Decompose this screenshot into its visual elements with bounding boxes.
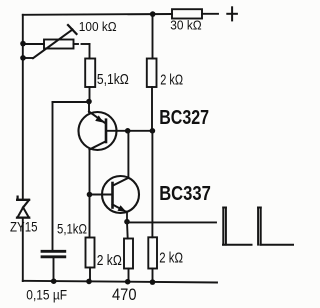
node dot base lead to Q2 collector xyxy=(125,128,131,134)
potentiometer P1 wiper arrow xyxy=(23,25,77,58)
wire divider column down xyxy=(151,131,153,238)
resistor R4 470 (emitter) xyxy=(124,222,133,282)
resistor R5 2k (bottom right) xyxy=(148,237,157,282)
svg-text:5,1kΩ: 5,1kΩ xyxy=(97,72,129,88)
wire capacitor to bottom rail xyxy=(53,258,55,281)
node dot top rail tap xyxy=(150,11,156,17)
node dot R5 ground xyxy=(150,279,156,285)
svg-text:2 kΩ: 2 kΩ xyxy=(159,249,183,266)
plus supply terminal xyxy=(227,7,237,20)
waveform output pulses xyxy=(223,208,293,245)
resistor R1 5.1k (top) xyxy=(85,59,95,102)
resistor 30k xyxy=(172,9,202,18)
transistor Q2 base lead xyxy=(90,194,112,196)
node dot capacitor-ground xyxy=(51,278,57,284)
resistor R3 2k (bottom left) xyxy=(86,195,95,282)
node dot base lead to divider xyxy=(150,128,156,134)
transistor Q1 emitter lead with arrow xyxy=(89,102,105,124)
transistor Q1 collector lead xyxy=(90,142,106,195)
node dot R4 ground xyxy=(125,279,131,285)
svg-text:470: 470 xyxy=(112,286,137,304)
transistor Q2 BC337 body xyxy=(102,176,139,213)
transistor Q1 base lead xyxy=(107,130,153,132)
svg-text:2 kΩ: 2 kΩ xyxy=(97,253,122,269)
svg-text:0,15 µF: 0,15 µF xyxy=(26,287,67,302)
transistor Q1 BC327 body xyxy=(79,112,117,150)
node dot emitter node xyxy=(86,99,92,105)
svg-text:BC337: BC337 xyxy=(159,182,211,205)
capacitor C1 0.15uF xyxy=(42,251,65,256)
svg-text:100 kΩ: 100 kΩ xyxy=(79,19,117,34)
node dot R3 ground xyxy=(86,279,92,285)
resistor R2 2k (top) xyxy=(147,14,157,131)
transistor Q2 collector lead xyxy=(113,178,128,186)
transistor Q2 emitter lead with arrow xyxy=(113,205,128,223)
node dot rail-wiper xyxy=(20,55,26,61)
zener diode D1 ZY15 xyxy=(17,197,29,218)
svg-text:ZY15: ZY15 xyxy=(10,218,38,234)
wire top supply rail xyxy=(23,14,218,15)
wire Q2 collector up to Q1 base xyxy=(127,131,129,178)
node dot Q2 base xyxy=(87,192,93,198)
wire emitter node to capacitor branch xyxy=(53,102,90,250)
svg-text:5,1kΩ: 5,1kΩ xyxy=(57,221,87,237)
potentiometer P1 100k body xyxy=(23,40,90,59)
svg-text:30 kΩ: 30 kΩ xyxy=(170,18,202,33)
svg-text:2 kΩ: 2 kΩ xyxy=(160,72,183,89)
svg-text:BC327: BC327 xyxy=(159,106,209,129)
wire bottom rail xyxy=(23,281,217,283)
wire left rail xyxy=(22,15,24,281)
node dot rail-pot top xyxy=(20,41,26,47)
node dot Q2 emitter xyxy=(124,219,130,225)
wire output line xyxy=(127,221,216,223)
